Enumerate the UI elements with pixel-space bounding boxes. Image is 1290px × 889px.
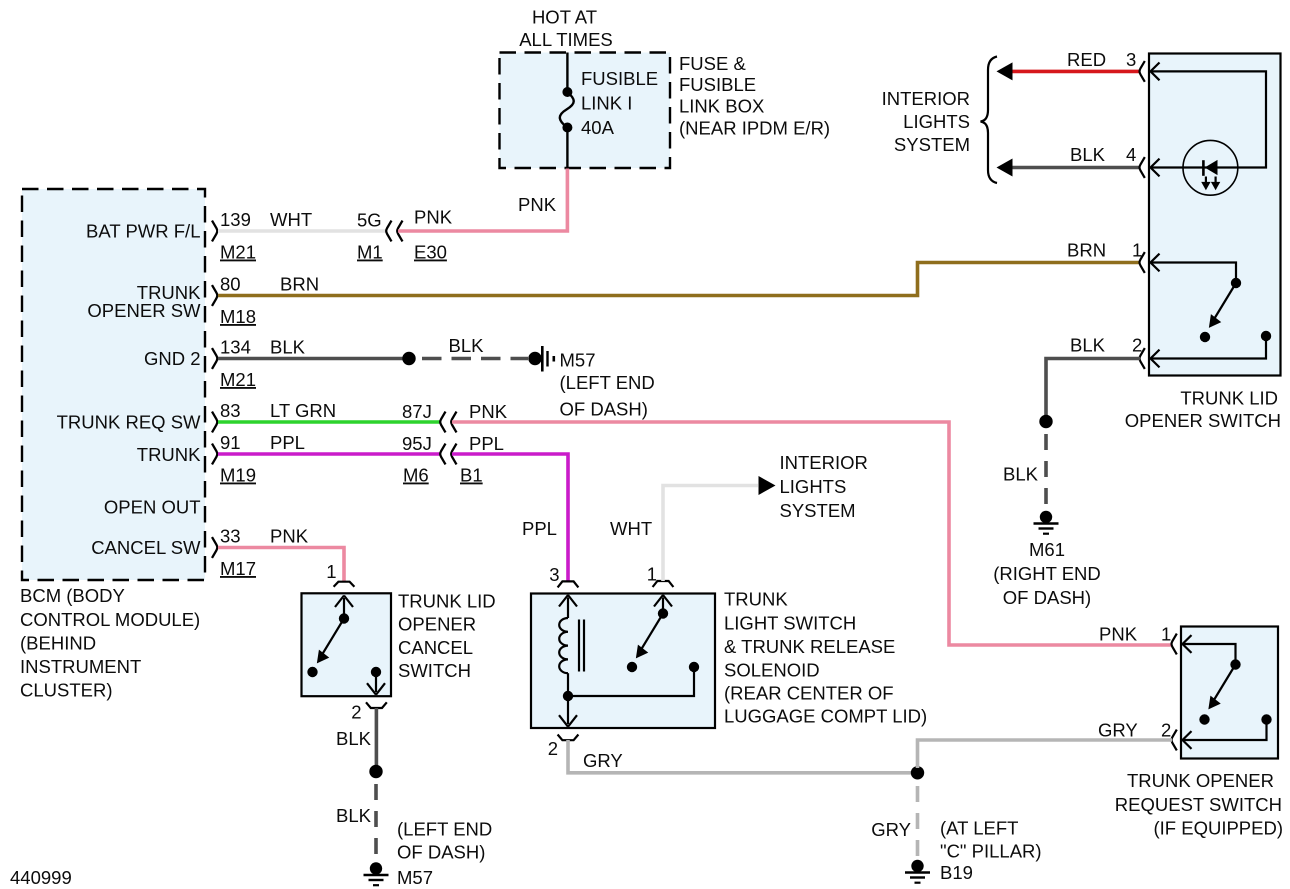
pin 3 terminal [1140, 61, 1160, 82]
svg-text:LIGHTS: LIGHTS [780, 476, 847, 497]
cancel switch internal contacts [307, 596, 385, 695]
svg-text:OPEN OUT: OPEN OUT [104, 497, 201, 518]
SECTION: trunk lid opener switch [882, 49, 1281, 608]
cancel switch caption [398, 591, 496, 682]
trunk light switch contacts [573, 595, 699, 696]
BCM pin 139 bracket [212, 221, 217, 242]
ground M61 (right end of dash) [993, 511, 1101, 608]
svg-text:TRUNK: TRUNK [724, 589, 788, 610]
label interior lights system (top) [882, 88, 970, 155]
pin 1 bracket (top) [326, 561, 354, 587]
wire PNK from fuse box down to row1 [417, 169, 567, 232]
svg-text:BRN: BRN [1067, 240, 1106, 261]
pin 2 bracket (bottom) [548, 735, 579, 760]
trunk lid opener switch box [1149, 54, 1281, 376]
svg-text:33: 33 [220, 526, 241, 547]
svg-text:(RIGHT END: (RIGHT END [993, 563, 1101, 584]
SECTION: trunk light switch [531, 452, 1042, 883]
SECTION: request switch [918, 624, 1284, 839]
svg-text:2: 2 [1132, 335, 1142, 356]
wire to pin 2 with down arrow [559, 696, 577, 727]
svg-text:M21: M21 [220, 369, 256, 390]
solenoid coil [559, 595, 584, 696]
trunk lid opener switch caption [1125, 388, 1281, 432]
pin 2 bracket (bottom) [351, 702, 387, 723]
brace interior lights system [981, 57, 998, 184]
wire PNK pin 1 labels [1099, 624, 1171, 645]
switch contacts inside request switch [1184, 644, 1272, 740]
wire BLK pin4 to interior lights (arrow left) [997, 144, 1141, 177]
svg-text:LIGHT SWITCH: LIGHT SWITCH [724, 613, 856, 634]
svg-text:FUSE &: FUSE & [679, 53, 746, 74]
svg-text:(BEHIND: (BEHIND [20, 633, 96, 654]
BCM (body control module) box [22, 189, 205, 580]
SECTION: cancel switch [302, 561, 496, 888]
svg-text:GRY: GRY [583, 750, 623, 771]
wire LT GRN pin83 to connector 87J [218, 400, 440, 422]
svg-text:M19: M19 [220, 465, 256, 486]
svg-text:BCM (BODY: BCM (BODY [20, 585, 125, 606]
wire RED pin3 to interior lights (arrow left) [997, 49, 1141, 80]
wire WHT pin1 to interior lights system [610, 486, 758, 582]
svg-text:M1: M1 [357, 242, 383, 263]
junction node on BLK wire [402, 352, 415, 365]
svg-text:"C" PILLAR): "C" PILLAR) [940, 841, 1042, 862]
BCM pin 134 bracket [212, 348, 217, 369]
junction node at coil bottom [563, 691, 573, 701]
ground B19 (at left C pillar) [905, 818, 1042, 884]
label HOT AT ALL TIMES [519, 7, 613, 51]
svg-text:BAT PWR F/L: BAT PWR F/L [86, 221, 200, 242]
svg-text:(IF EQUIPPED): (IF EQUIPPED) [1153, 818, 1283, 839]
svg-text:M57: M57 [560, 350, 596, 371]
connector 95J M6 / B1 [402, 433, 483, 486]
svg-text:2: 2 [351, 702, 361, 723]
svg-text:INTERIOR: INTERIOR [780, 452, 868, 473]
svg-text:5G: 5G [357, 210, 382, 231]
svg-text:PNK: PNK [469, 401, 508, 422]
svg-text:2: 2 [1161, 720, 1171, 741]
svg-text:TRUNK LID: TRUNK LID [1180, 388, 1278, 409]
wire PNK pin33 to cancel switch pin1 [218, 526, 344, 583]
wire PPL 95J to trunk light switch pin3 [452, 433, 568, 582]
svg-text:RED: RED [1067, 49, 1106, 70]
svg-text:PNK: PNK [414, 207, 453, 228]
svg-text:OPENER: OPENER [398, 614, 476, 635]
trunk light switch &amp; trunk release solenoid box [531, 594, 715, 729]
svg-text:B19: B19 [940, 862, 973, 883]
connector 5G M1 / E30 [357, 210, 447, 263]
LED internal wiring from pin3 [1152, 71, 1266, 167]
trunk lid opener cancel switch box [302, 593, 392, 696]
svg-text:M61: M61 [1029, 539, 1065, 560]
svg-text:GRY: GRY [1098, 720, 1138, 741]
svg-text:139: 139 [220, 209, 251, 230]
SECTION: bcm [20, 189, 217, 701]
svg-text:(LEFT END: (LEFT END [560, 372, 655, 393]
svg-text:LINK I: LINK I [581, 93, 632, 114]
pin 4 terminal [1140, 157, 1160, 178]
fusible link I 40A [560, 53, 658, 169]
svg-text:SYSTEM: SYSTEM [894, 134, 970, 155]
connector 87J [402, 401, 457, 432]
svg-text:BLK: BLK [270, 337, 306, 358]
svg-text:(LEFT END: (LEFT END [397, 819, 492, 840]
svg-text:95J: 95J [402, 433, 432, 454]
fuse &amp; fusible link box (near IPDM E/R) [500, 53, 831, 169]
svg-text:(REAR CENTER OF: (REAR CENTER OF [724, 683, 894, 704]
svg-text:INTERIOR: INTERIOR [882, 88, 970, 109]
junction node on BLK wire [369, 765, 382, 778]
SECTION: footer [10, 867, 72, 888]
svg-text:2: 2 [548, 738, 558, 759]
svg-text:PPL: PPL [469, 433, 504, 454]
wire WHT pin139 to connector M1 [218, 209, 386, 263]
wire BLK cancel switch pin2 down (solid) [336, 708, 376, 765]
pin 1 terminal [1172, 634, 1192, 655]
svg-text:REQUEST SWITCH: REQUEST SWITCH [1115, 794, 1282, 815]
svg-text:BRN: BRN [280, 274, 319, 295]
svg-text:M21: M21 [220, 242, 256, 263]
svg-text:LT GRN: LT GRN [270, 400, 336, 421]
svg-text:E30: E30 [414, 242, 447, 263]
svg-text:WHT: WHT [610, 518, 652, 539]
svg-text:M6: M6 [403, 465, 429, 486]
BCM caption [20, 585, 200, 701]
svg-text:ALL TIMES: ALL TIMES [519, 29, 613, 50]
LED circle [1183, 140, 1238, 195]
svg-text:LIGHTS: LIGHTS [903, 111, 970, 132]
svg-text:M17: M17 [220, 558, 256, 579]
svg-text:GND 2: GND 2 [144, 348, 201, 369]
arrow to interior lights system [759, 476, 776, 495]
wire BLK pin2 to junction [1046, 359, 1140, 416]
request switch caption [1115, 770, 1283, 839]
svg-text:BLK: BLK [1070, 335, 1106, 356]
wire BLK dashed to ground M61 [1003, 434, 1046, 507]
wire GRY pin2 to junction [568, 740, 911, 773]
svg-text:SOLENOID: SOLENOID [724, 660, 820, 681]
wire PNK connector E30 to fuse link [398, 207, 453, 232]
wire PNK 87J to trunk opener request switch pin1 [452, 401, 1172, 645]
label interior lights system (middle) [780, 452, 868, 521]
svg-text:GRY: GRY [871, 819, 911, 840]
svg-text:LUGGAGE COMPT LID): LUGGAGE COMPT LID) [724, 706, 927, 727]
SECTION: rows [218, 207, 1172, 646]
svg-text:87J: 87J [402, 401, 432, 422]
junction node on BLK [1039, 415, 1052, 428]
svg-text:FUSIBLE: FUSIBLE [679, 74, 756, 95]
pin 3 bracket (top) [549, 564, 578, 587]
pin 2 terminal [1140, 348, 1160, 369]
wire BLK dashed to ground M57 [336, 784, 376, 858]
svg-text:BLK: BLK [1003, 464, 1039, 485]
svg-text:TRUNK OPENER: TRUNK OPENER [1127, 770, 1274, 791]
svg-text:SWITCH: SWITCH [398, 660, 471, 681]
svg-text:WHT: WHT [270, 209, 312, 230]
wire BLK dashed to M57 splice [422, 335, 528, 359]
svg-text:TRUNK: TRUNK [137, 444, 201, 465]
svg-text:& TRUNK RELEASE: & TRUNK RELEASE [724, 636, 895, 657]
svg-text:OPENER SW: OPENER SW [87, 300, 201, 321]
svg-text:CANCEL SW: CANCEL SW [91, 537, 201, 558]
svg-text:PPL: PPL [522, 518, 557, 539]
wire GRY pin 2 labels [1098, 720, 1171, 741]
svg-text:3: 3 [549, 564, 559, 585]
BCM pin name labels [57, 221, 202, 559]
svg-text:BLK: BLK [336, 728, 372, 749]
splice M57 (left end of dash) [528, 346, 654, 420]
svg-text:83: 83 [220, 400, 241, 421]
svg-text:OF DASH): OF DASH) [1003, 587, 1091, 608]
switch contacts inside trunk lid opener switch [1152, 263, 1271, 359]
svg-text:OF DASH): OF DASH) [560, 399, 648, 420]
svg-text:CLUSTER): CLUSTER) [20, 680, 113, 701]
svg-text:1: 1 [326, 561, 336, 582]
wire GRY pin2 going left [918, 740, 1173, 768]
svg-text:PNK: PNK [270, 526, 309, 547]
BCM pin 91 bracket [212, 444, 217, 465]
svg-text:OF DASH): OF DASH) [397, 842, 485, 863]
LED symbol [1201, 160, 1220, 190]
svg-text:PPL: PPL [270, 432, 305, 453]
svg-text:M18: M18 [220, 306, 256, 327]
wire GRY dashed to ground B19 [871, 786, 917, 856]
pin 1 terminal [1140, 252, 1160, 273]
junction node GRY [911, 766, 924, 779]
BCM pin 83 bracket [212, 412, 217, 433]
svg-text:3: 3 [1126, 49, 1136, 70]
pin 1 bracket (top) [647, 564, 674, 588]
wire BLK pin 2 label [1070, 335, 1142, 356]
wire BLK pin134 solid segment [218, 337, 409, 391]
svg-text:440999: 440999 [10, 867, 72, 888]
svg-text:PNK: PNK [1099, 624, 1138, 645]
wire BRN pin80 to trunk lid opener switch pin1 [218, 263, 1140, 328]
svg-text:B1: B1 [460, 465, 483, 486]
trunk opener request switch box [1181, 627, 1278, 759]
pin 2 terminal [1172, 730, 1192, 751]
svg-text:HOT AT: HOT AT [532, 7, 597, 28]
svg-text:CANCEL: CANCEL [398, 637, 473, 658]
svg-text:1: 1 [647, 564, 657, 585]
svg-text:CONTROL MODULE): CONTROL MODULE) [20, 609, 200, 630]
wire PPL pin91 to connector 95J [218, 432, 440, 486]
svg-text:FUSIBLE: FUSIBLE [581, 68, 658, 89]
trunk light switch caption [724, 589, 927, 727]
ground M57 (left end of dash) [364, 819, 493, 889]
svg-text:134: 134 [220, 337, 251, 358]
svg-text:TRUNK LID: TRUNK LID [398, 591, 496, 612]
svg-text:PNK: PNK [518, 194, 557, 215]
BCM pin 33 bracket [212, 537, 217, 558]
wire BRN enters pin 1 label [1067, 240, 1142, 261]
SECTION: fuse box [417, 7, 830, 232]
BCM pin 80 bracket [212, 285, 217, 306]
svg-text:BLK: BLK [336, 805, 372, 826]
svg-text:M57: M57 [397, 867, 433, 888]
svg-text:40A: 40A [581, 117, 615, 138]
svg-text:INSTRUMENT: INSTRUMENT [20, 656, 141, 677]
svg-text:BLK: BLK [1070, 144, 1106, 165]
svg-text:BLK: BLK [449, 335, 485, 356]
svg-text:TRUNK REQ SW: TRUNK REQ SW [57, 412, 201, 433]
svg-text:(NEAR IPDM E/R): (NEAR IPDM E/R) [679, 118, 830, 139]
svg-text:OPENER SWITCH: OPENER SWITCH [1125, 410, 1281, 431]
svg-text:1: 1 [1161, 624, 1171, 645]
svg-text:91: 91 [220, 432, 241, 453]
svg-text:SYSTEM: SYSTEM [780, 500, 856, 521]
svg-text:80: 80 [220, 274, 241, 295]
svg-text:(AT LEFT: (AT LEFT [940, 818, 1018, 839]
svg-text:LINK BOX: LINK BOX [679, 96, 764, 117]
svg-text:4: 4 [1126, 144, 1136, 165]
